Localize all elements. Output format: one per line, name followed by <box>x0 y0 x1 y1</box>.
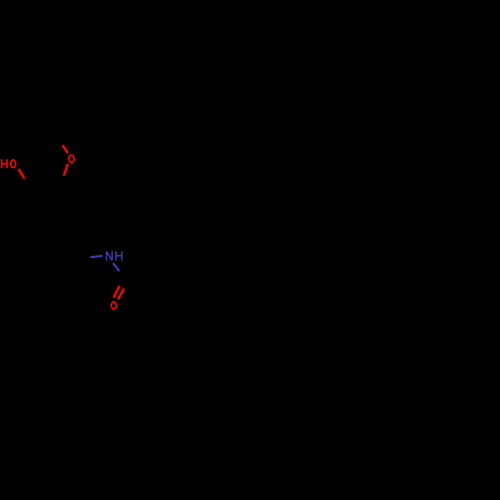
hydroxyl label HO (phenol OH), letter H <box>2 159 7 168</box>
bond CH3-O (methyl to methoxy O, red half) <box>62 145 67 153</box>
C=O double bond (red halves near carbonyl O) <box>114 286 124 300</box>
amide label NH, letter N <box>107 251 113 260</box>
amide label NH, letter H <box>116 251 122 260</box>
methoxy O label <box>69 155 74 162</box>
hydroxyl label HO, letter O <box>11 160 16 168</box>
bond N-C(=O) (amide N to carbonyl carbon, blue half) <box>113 263 119 271</box>
carbonyl O label <box>111 302 116 309</box>
bond CH2-N (benzyl CH2 to amide N, blue half) <box>90 256 102 257</box>
bond O-C2 (methoxy O to ring carbon, red half) <box>64 164 68 176</box>
bond O-C1 (phenol O to ring carbon, red half) <box>19 169 25 179</box>
